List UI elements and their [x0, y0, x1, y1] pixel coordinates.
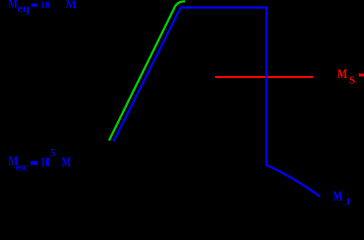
- svg-text:M: M: [62, 155, 71, 170]
- svg-text:M: M: [66, 0, 77, 11]
- svg-text:J: J: [344, 196, 351, 208]
- svg-text:M: M: [333, 190, 343, 205]
- svg-text:10: 10: [41, 154, 51, 169]
- svg-text:M: M: [8, 0, 17, 10]
- svg-text:10: 10: [40, 0, 50, 11]
- svg-text:esc: esc: [16, 161, 28, 173]
- svg-text:M: M: [337, 66, 347, 81]
- svg-text:5: 5: [50, 147, 55, 159]
- svg-text:eq: eq: [18, 1, 30, 15]
- svg-text:S: S: [349, 75, 355, 87]
